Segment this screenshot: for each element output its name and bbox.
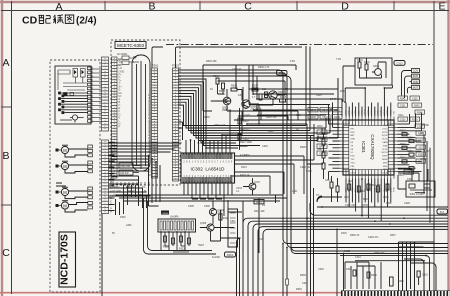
svg-text:S-GND: S-GND [212,256,220,259]
svg-text:P: P [119,125,121,129]
svg-text:47K: 47K [284,88,289,91]
optical pickup block box [55,66,91,124]
svg-text:MUT: MUT [413,86,419,89]
svg-text:SEN: SEN [378,110,380,115]
pin label plates right of IC301 [398,96,426,174]
svg-text:R329 1K: R329 1K [240,174,250,177]
svg-text:5V: 5V [112,232,115,235]
IC301 inner pin names [351,124,389,175]
grid letters left: A B C [2,57,10,259]
flex ribbon cable racetrack [132,55,150,171]
svg-text:ADIO: ADIO [351,168,356,171]
svg-text:A: A [2,57,9,69]
transistor Q304 [209,208,216,215]
svg-text:FSTO: FSTO [382,132,388,134]
shield loop around CN303 [144,198,217,254]
svg-text:R328: R328 [300,146,306,149]
svg-text:R325: R325 [341,232,347,235]
svg-text:D301: D301 [227,253,234,257]
motor M2 connector pins [88,161,93,173]
svg-text:MUTE: MUTE [422,124,429,127]
svg-text:MDP: MDP [383,162,388,164]
label plate D6 ref [437,209,448,214]
svg-text:R339: R339 [300,274,306,277]
svg-text:CD: CD [22,15,38,27]
J301 pin labels [413,70,419,90]
svg-text:R332: R332 [296,288,302,291]
svg-text:C305: C305 [188,205,194,208]
svg-text:R301: R301 [357,59,363,62]
svg-text:C313: C313 [396,61,403,65]
connector CN303 body [158,219,196,232]
svg-text:R303 10K: R303 10K [206,60,217,63]
pickup flex connector pins [88,67,93,122]
svg-text:C: C [2,247,10,259]
CN303 bottom components [161,232,191,252]
svg-text:A: A [55,1,62,13]
J301 wires [402,71,412,99]
band wires to IC301 upper-left [249,65,342,120]
junction dots bus [148,155,157,163]
svg-text:R311: R311 [398,114,404,117]
transistor Q302 [242,100,250,108]
svg-text:R313: R313 [400,144,406,146]
svg-text:M: M [63,203,67,208]
svg-text:SCLK: SCLK [382,139,388,141]
svg-text:C302 47: C302 47 [232,68,242,71]
CN301 lower pin labels [110,140,115,213]
grid tick marks top band [105,1,394,11]
svg-text:R336 1K: R336 1K [350,234,360,237]
svg-text:R340: R340 [398,280,404,283]
svg-text:GND: GND [351,139,356,141]
pickup to board connector joins [92,69,102,122]
svg-text:E: E [438,1,445,13]
svg-text:DATA: DATA [382,141,388,144]
svg-text:R335: R335 [362,204,368,207]
wires below MCETC box [109,143,136,215]
grid letters top: A B C D E [55,1,445,13]
component value annotations [112,58,431,283]
svg-text:R344: R344 [417,112,423,114]
IC303 bottom edge (cropped) [341,291,450,296]
svg-text:D-6: D-6 [440,210,445,214]
small label plate R317 [254,200,264,204]
motor M2 sled motor [56,161,69,169]
svg-text:FGD: FGD [351,156,356,158]
title kanji HAI [39,15,45,24]
NCD-170S model label [59,232,76,287]
VCC rail top cluster [203,65,296,111]
svg-text:10u: 10u [348,180,353,183]
LD/GND labels above cable [117,52,139,67]
svg-text:0.022: 0.022 [244,114,251,117]
svg-text:R320: R320 [163,246,169,249]
svg-text:7.0V: 7.0V [336,58,341,61]
svg-text:MDS: MDS [383,166,388,168]
motor M4 tracking act [56,201,69,209]
svg-text:R350: R350 [418,154,424,156]
svg-text:CXF: CXF [407,178,412,181]
wires into IC303 [345,262,381,289]
svg-text:C316: C316 [383,197,389,199]
svg-text:C311: C311 [230,220,236,223]
svg-text:R312: R312 [400,131,406,133]
IC302 pin numbers [183,161,233,179]
CN301 strip lower [102,140,109,214]
svg-text:RFO: RFO [362,110,364,115]
transistor Q301 [223,97,231,105]
bus CN301 to IC302 [102,143,182,296]
CN303 label plate [161,211,169,215]
wires top right [343,66,392,102]
board connector P302 strip [173,68,179,181]
svg-text:R341: R341 [400,98,406,100]
svg-text:IC301: IC301 [361,141,366,153]
svg-text:SSTP: SSTP [382,156,388,158]
svg-text:C331: C331 [400,105,406,107]
svg-text:C327 25V: C327 25V [345,204,356,207]
svg-text:C306: C306 [204,205,210,208]
label plate D301 [225,252,236,257]
svg-text:R346: R346 [412,119,418,121]
NCD-170S unit dashed enclosure [50,60,100,292]
Q304/Q305 wiring [200,200,242,241]
cap C318 bottom right [417,271,420,285]
svg-text:D: D [341,1,349,13]
RF amp sub-circuit box [355,58,392,85]
svg-text:RFI: RFI [351,128,355,130]
svg-text:M: M [63,190,67,195]
connector top feed wires [152,47,302,68]
svg-text:C321: C321 [302,282,308,285]
svg-text:VR: VR [117,58,121,62]
IC302 pin ticks [183,153,232,183]
svg-text:100K: 100K [386,202,392,205]
photodiode / laser diode cluster [58,69,87,96]
svg-text:TGU: TGU [351,162,356,164]
svg-text:R306: R306 [231,85,238,88]
relay driver box K301 [228,209,238,247]
CN302 bottom labels [112,186,148,197]
svg-text:C333: C333 [400,119,406,121]
transistor Q307 [243,178,256,195]
svg-text:R333 22K: R333 22K [370,184,381,187]
svg-text:R348: R348 [310,117,316,119]
svg-text:PCO: PCO [387,109,389,114]
svg-text:VREF: VREF [420,158,427,161]
svg-text:R310: R310 [317,126,323,128]
svg-text:R315 2.2K: R315 2.2K [214,124,226,127]
wire junction dots [148,87,427,256]
MCETC bottom option plates [119,163,141,175]
svg-text:P303: P303 [120,216,126,219]
nested loop wires from P302 [179,46,449,251]
svg-text:0.047: 0.047 [330,98,337,101]
svg-text:XTLI: XTLI [383,125,388,127]
svg-text:5.8V: 5.8V [290,60,295,63]
svg-text:R309 4.7K: R309 4.7K [258,66,270,69]
svg-text:ASY: ASY [351,134,356,137]
MCETC-6303 name plate [115,42,146,49]
svg-text:R337: R337 [390,234,396,237]
svg-text:TEST: TEST [198,244,205,247]
svg-text:R314: R314 [400,158,406,160]
svg-text:GND: GND [126,224,132,227]
svg-text:L301: L301 [292,190,298,193]
svg-text:C324 16V: C324 16V [300,166,311,169]
svg-text:IC302 LA6541D: IC302 LA6541D [191,167,226,172]
svg-text:Q306: Q306 [373,65,380,68]
board boundary dash-dot line [166,44,433,46]
IC301 bottom pin names [345,186,396,192]
grid tick marks left band [1,107,12,205]
vertical drop wires center [283,142,448,296]
svg-text:LOC: LOC [381,110,383,115]
svg-text:FZC: FZC [320,132,325,134]
svg-text:R319: R319 [241,166,247,169]
svg-text:R343: R343 [414,105,420,107]
svg-text:R347: R347 [322,110,328,112]
bottom right horizontal links [337,229,430,296]
svg-text:TES: TES [352,110,354,115]
svg-text:C310: C310 [279,71,286,75]
svg-text:C340: C340 [310,110,316,112]
pin label plates left of IC301 [308,108,342,156]
CN301 strip upper [102,57,109,131]
crystal filter box X301 [406,181,435,197]
label plate C310 [277,71,288,76]
svg-text:LD GND: LD GND [112,190,121,193]
transistor Q303 digital [265,91,278,99]
transistor Q305 [207,224,214,231]
wire bundle: rounded corners turning down to bottom edge [221,218,449,296]
svg-text:C318: C318 [422,274,428,277]
svg-text:WDK: WDK [384,109,386,115]
svg-text:P301: P301 [152,64,159,68]
flex cable connector right strip [152,68,158,178]
svg-text:AOUT: AOUT [424,150,431,153]
svg-text:MDP: MDP [365,109,367,114]
svg-text:C328: C328 [404,202,410,205]
svg-text:ALC: ALC [418,146,423,149]
title kanji ZU [65,15,73,23]
svg-text:4.19MHz: 4.19MHz [240,154,250,157]
svg-text:LIM SW: LIM SW [120,172,129,175]
svg-text:1K: 1K [210,88,213,91]
svg-text:R304: R304 [213,75,220,78]
IC301 top pin names [346,109,396,115]
svg-text:MUTG: MUTG [382,152,388,154]
op-amp driver IC302 LA6541D [181,153,235,183]
svg-text:R327 100K: R327 100K [240,141,252,144]
svg-text:R331: R331 [340,90,346,93]
svg-text:C309: C309 [407,151,413,153]
svg-text:R302: R302 [364,61,370,64]
svg-text:LPF: LPF [420,132,425,135]
svg-text:LD: LD [117,63,120,67]
svg-text:+5V: +5V [112,194,117,197]
svg-text:LRCK: LRCK [382,173,388,175]
svg-text:DEF: DEF [358,109,360,114]
svg-text:R334: R334 [398,174,404,177]
svg-text:C341: C341 [334,110,340,112]
svg-text:CXA1782BQ: CXA1782BQ [370,134,375,160]
MCETC-6303 dashed enclosure [111,40,180,185]
IC302 top wires [186,111,242,153]
svg-text:Q307: Q307 [254,181,261,184]
svg-text:SENS: SENS [382,159,388,161]
svg-text:C314: C314 [306,170,312,173]
component column x239.5 [238,108,248,150]
svg-text:LOCK: LOCK [351,173,357,175]
svg-text:CLTV: CLTV [319,153,325,155]
svg-text:C329 47u: C329 47u [368,236,379,239]
svg-text:CN303: CN303 [162,213,170,215]
svg-text:C330: C330 [412,98,418,100]
svg-text:C335: C335 [418,161,424,163]
decoupling caps under IC302 [192,199,222,201]
IC302 bottom wires [184,183,232,216]
bus corner down to lower right [307,131,314,296]
svg-text:C320: C320 [346,268,352,271]
svg-text:VCC: VCC [368,109,370,114]
motor M3 connector pins [88,187,93,199]
svg-text:MON: MON [383,169,388,171]
flex pin numbers [148,69,151,177]
bias resistors near Q301 [211,78,286,111]
svg-text:C317: C317 [325,180,331,182]
svg-text:CLK: CLK [371,110,373,115]
svg-text:1.5K: 1.5K [296,114,301,117]
label plate C313 [394,61,405,66]
svg-text:R316: R316 [363,199,369,201]
svg-text:R317 10K: R317 10K [254,210,265,213]
svg-text:C315: C315 [344,197,350,199]
svg-text:M: M [63,164,67,169]
svg-text:C308: C308 [407,137,413,139]
pickup monitor transistor [60,115,84,123]
motor M1 spindle motor [56,145,69,153]
long horizontal bus right side [310,196,448,215]
IC301 top pin wires [346,88,391,117]
svg-text:C326: C326 [358,190,364,193]
IC301 pin stubs and inner pin boxes [340,117,398,179]
svg-text:GND: GND [390,109,392,114]
IC301 left pin wires and parts [322,102,340,179]
svg-text:MUT: MUT [418,140,424,142]
title kanji SEN [53,15,63,24]
bus under IC302 [116,195,288,253]
svg-text:NCD-170S: NCD-170S [59,234,71,285]
IC301 right pin wires [398,113,431,223]
svg-text:FOK: FOK [346,109,348,114]
wires into X301 [398,169,428,189]
motor M4 connector pins [88,202,93,209]
svg-text:XTLO: XTLO [382,128,388,130]
svg-text:GND: GND [413,81,419,84]
svg-text:DFCT: DFCT [319,146,326,148]
servo IC301 CXA1782BQ QFP body [343,120,394,175]
svg-text:10K: 10K [238,94,243,97]
svg-text:LM-0R4: LM-0R4 [170,216,179,219]
svg-text:C342: C342 [322,117,328,119]
svg-text:MIR: MIR [349,110,351,114]
caps near IC301 bottom left [330,176,339,202]
svg-text:SQOF: SQOF [382,135,388,137]
svg-text:RFO: RFO [351,132,356,134]
svg-text:XRS: XRS [374,109,376,114]
motor M1 connector pins [88,145,93,157]
svg-text:CLOK: CLOK [382,149,388,151]
svg-text:M: M [63,148,67,153]
bottom-right vertical drops [399,242,437,296]
svg-text:FOK: FOK [258,238,263,241]
svg-text:B: B [148,1,155,13]
svg-text:TP: TP [316,193,320,197]
pickup wiring rows [59,92,89,114]
IC301 bottom pin wires [346,179,391,222]
svg-text:XLAT: XLAT [383,144,389,147]
motor M3 focus act [56,187,69,195]
svg-text:C322 0.1: C322 0.1 [240,128,250,131]
svg-text:C: C [244,1,252,13]
svg-text:C303: C303 [204,116,210,119]
svg-text:RCH: RCH [413,75,419,78]
svg-text:LCH: LCH [413,70,418,73]
svg-text:B: B [2,150,9,162]
svg-text:C325: C325 [316,94,322,97]
svg-text:C319: C319 [355,256,361,259]
svg-text:AGC: AGC [354,109,357,114]
svg-text:R330: R330 [371,274,377,277]
svg-text:R338 330: R338 330 [374,252,385,255]
svg-text:AVDD: AVDD [351,124,357,127]
CN301 pin labels [119,57,125,129]
svg-text:ISN: ISN [394,110,396,114]
svg-text:R324 330: R324 330 [266,116,277,119]
svg-text:R326: R326 [268,130,274,133]
misc reference labels [236,107,404,259]
motor wiring to connector [56,149,88,212]
svg-text:(2/4): (2/4) [76,16,97,27]
mid interconnect wires [230,87,323,194]
svg-text:LD GND: LD GND [117,52,127,56]
svg-text:C334: C334 [318,268,324,271]
svg-text:0.022: 0.022 [344,250,351,253]
svg-text:R349: R349 [334,117,340,119]
svg-text:R305: R305 [219,90,226,93]
svg-text:X301 4.19M: X301 4.19M [410,193,423,196]
svg-text:MCETC-6303: MCETC-6303 [117,43,144,48]
title: CD HAISEN-ZU (2/4) [22,15,38,27]
CN303 pin squares [160,221,194,230]
svg-text:H: H [110,209,112,213]
svg-text:C323: C323 [262,145,268,148]
svg-text:100: 100 [262,88,267,91]
svg-text:Q305: Q305 [200,222,207,225]
svg-text:TZC: TZC [320,139,325,141]
J301 pins [412,69,420,90]
flex cable connector left strip [112,57,118,178]
